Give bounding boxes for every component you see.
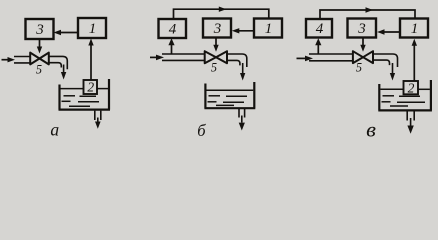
svg-text:1: 1 [89, 21, 97, 37]
wire block2 to block1 [412, 39, 417, 81]
sensor block 2 [404, 80, 419, 95]
sensor block 2 [84, 80, 98, 95]
block 3 [203, 19, 231, 38]
svg-text:4: 4 [169, 22, 177, 38]
block 1 [78, 18, 106, 38]
wire block1 to block3 [377, 29, 400, 34]
block 4 [306, 19, 332, 38]
valve 5 [353, 51, 373, 74]
svg-text:4: 4 [316, 21, 324, 37]
svg-text:5: 5 [36, 63, 42, 77]
svg-text:2: 2 [87, 80, 94, 95]
block 4 [159, 19, 187, 38]
wire pipe to block4 sensing tap [315, 38, 321, 54]
block 1 [400, 19, 428, 38]
inflow arrow [297, 56, 314, 62]
svg-text:2: 2 [408, 80, 415, 95]
outflow arrow [239, 116, 245, 131]
outlet pipe [95, 111, 101, 120]
wire block2 to block1 [88, 39, 93, 81]
wire block3 to valve [213, 38, 218, 52]
flow arrow into tank [61, 65, 66, 80]
outflow arrow [95, 118, 101, 129]
svg-text:3: 3 [357, 21, 366, 37]
liquid surface [380, 89, 430, 106]
pipe inlet [14, 57, 31, 63]
wire block1 to block3 [232, 28, 254, 33]
tank [204, 82, 255, 108]
tank [59, 79, 111, 110]
wire block3 to valve [360, 38, 365, 52]
flow arrow into tank [240, 63, 245, 81]
wire block1 to block3 [54, 30, 79, 35]
wire pipe to block4 sensing tap [168, 38, 174, 54]
inflow arrow [2, 57, 16, 62]
svg-text:1: 1 [265, 21, 273, 37]
liquid surface [206, 90, 253, 105]
liquid surface [61, 89, 109, 107]
svg-text:а: а [50, 120, 59, 140]
svg-text:3: 3 [35, 22, 44, 38]
wire block4 to block1 feedback [320, 7, 415, 19]
block 1 [254, 19, 282, 38]
flow arrow into tank [390, 63, 395, 81]
svg-text:б: б [197, 121, 206, 140]
pipe inlet [309, 54, 353, 61]
svg-text:1: 1 [411, 21, 419, 37]
outlet pipe [239, 109, 245, 118]
pipe inlet [162, 54, 205, 60]
pipe outlet hook [373, 54, 398, 67]
valve 5 [30, 53, 49, 77]
pipe outlet hook [227, 54, 247, 67]
tank [378, 80, 432, 110]
svg-text:в: в [366, 118, 376, 141]
valve 5 [205, 51, 227, 74]
svg-text:5: 5 [211, 61, 217, 75]
outlet pipe [407, 111, 414, 120]
pipe outlet hook [49, 56, 68, 69]
inflow arrow [150, 55, 164, 61]
wire block4 to block1 feedback [174, 7, 269, 20]
svg-text:5: 5 [356, 61, 362, 75]
svg-text:3: 3 [213, 21, 222, 37]
wire block3 to valve [37, 39, 42, 54]
outflow arrow [407, 118, 413, 134]
block 3 [348, 19, 377, 38]
block 3 [26, 19, 54, 39]
